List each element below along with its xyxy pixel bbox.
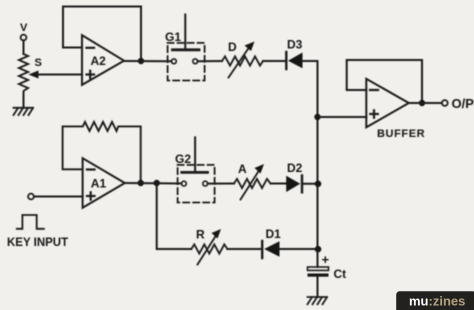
svg-text:V: V <box>20 22 28 34</box>
wire BUFFER feedback loop <box>347 60 422 103</box>
ground (below S) <box>14 108 34 115</box>
wire capacitor to ground <box>317 277 319 297</box>
svg-text:G2: G2 <box>175 152 191 166</box>
svg-text:A2: A2 <box>91 54 107 68</box>
wire G2 to A <box>208 183 234 185</box>
node O/P terminal <box>442 96 474 111</box>
node D2 junction <box>315 181 322 188</box>
node BUFFER output junction <box>419 100 425 106</box>
capacitor Ct <box>308 252 347 281</box>
svg-text:G1: G1 <box>165 30 181 44</box>
variable resistor R <box>191 228 227 265</box>
svg-text:A1: A1 <box>91 177 107 191</box>
node KEY INPUT terminal <box>28 194 34 200</box>
wiper wire to A2 + input <box>29 71 83 79</box>
wire D to D3 <box>263 60 286 62</box>
wire A2 feedback loop <box>63 7 141 61</box>
node Ct junction <box>315 246 322 253</box>
analog switch G2 <box>175 137 215 202</box>
diode D1 <box>262 227 281 258</box>
node A2 output junction <box>138 58 144 64</box>
wire A to D2 <box>271 183 287 185</box>
svg-text:KEY INPUT: KEY INPUT <box>7 237 68 249</box>
wire G1 to D <box>198 60 222 62</box>
diode D2 <box>286 161 302 192</box>
node V terminal <box>20 22 28 40</box>
op-amp A1 <box>83 158 125 208</box>
op-amp BUFFER <box>366 79 425 140</box>
wire node to BUFFER + input <box>318 116 367 118</box>
wire R to D1 <box>227 248 261 250</box>
svg-text:BUFFER: BUFFER <box>377 128 425 140</box>
op-amp A2 <box>82 35 124 85</box>
wire A1 output to G2 <box>125 182 182 185</box>
muzines watermark <box>396 291 474 310</box>
wire KEY INPUT to A1 + input <box>34 196 83 198</box>
wire D3 to main node line <box>303 61 318 249</box>
variable resistor D <box>222 40 263 78</box>
svg-text:D: D <box>228 40 237 54</box>
svg-text:Ct: Ct <box>334 267 347 281</box>
node A1 feedback junction <box>138 180 144 186</box>
wire V to potentiometer <box>23 40 25 54</box>
diode D3 <box>286 38 302 70</box>
svg-text:D1: D1 <box>266 227 282 241</box>
svg-text:S: S <box>35 57 42 69</box>
potentiometer S <box>19 54 42 94</box>
variable resistor A <box>234 162 271 200</box>
wire BUFFER output to O/P <box>409 102 442 104</box>
key input pulse symbol <box>17 215 44 229</box>
svg-text:A: A <box>238 162 247 176</box>
node A1 output branch junction <box>154 180 160 186</box>
svg-text:+: + <box>322 252 330 267</box>
wire node to capacitor <box>317 249 319 267</box>
wire branch down to R <box>157 183 192 249</box>
ground (below Ct) <box>308 297 328 304</box>
wire A2 output to G1 <box>124 60 172 62</box>
wire potentiometer to ground <box>23 94 25 108</box>
svg-text:D3: D3 <box>287 38 303 52</box>
analog switch G1 <box>165 15 205 81</box>
svg-text:mu:zines: mu:zines <box>409 294 465 309</box>
wire D2 to node <box>302 183 318 185</box>
resistor A1 feedback <box>63 122 141 183</box>
wire D1 to node <box>280 248 318 250</box>
svg-text:R: R <box>196 228 205 242</box>
svg-text:O/P: O/P <box>452 96 474 111</box>
node buffer + input junction <box>314 114 320 120</box>
svg-text:D2: D2 <box>287 161 303 175</box>
